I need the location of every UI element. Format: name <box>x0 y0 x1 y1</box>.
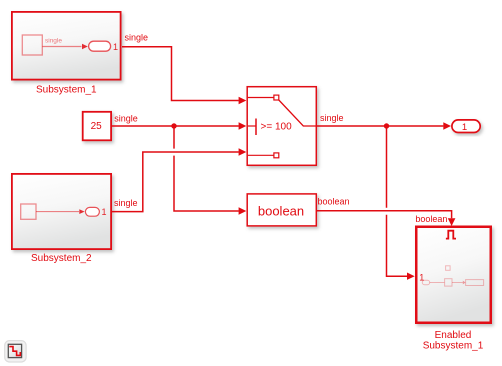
corner badge inner square <box>8 344 21 357</box>
block Constant 25 <box>83 112 111 141</box>
Switch inner bottom input line <box>248 154 274 156</box>
Subsystem_2 inner outport oval <box>85 207 99 216</box>
svg-text:boolean: boolean <box>258 203 304 218</box>
svg-text:1: 1 <box>462 122 467 133</box>
svg-text:single: single <box>320 113 344 123</box>
wire branch from Constant junction to boolean block <box>174 126 246 215</box>
block Subsystem_1 <box>12 12 121 80</box>
svg-text:boolean: boolean <box>318 196 350 206</box>
Switch inner top port square <box>274 95 279 100</box>
wire boolean block to Enabled Subsystem enable port <box>317 211 456 226</box>
Subsystem_2 inner wire with arrowhead <box>36 209 85 214</box>
svg-text:Enabled: Enabled <box>435 330 472 341</box>
Switch inner middle input stub <box>248 125 256 127</box>
Enabled Subsystem inner preview small rounded rect <box>422 280 429 284</box>
block Data Type Conversion boolean <box>247 194 316 226</box>
outport Out1 oval <box>452 120 480 133</box>
wire Switch output to outport 1 <box>317 122 451 129</box>
junction dot on Switch output wire <box>384 123 389 128</box>
Enabled Subsystem inner preview wire left <box>430 282 445 284</box>
svg-text:>= 100: >= 100 <box>261 121 293 132</box>
Subsystem_1 inner inport square <box>22 35 42 55</box>
corner badge button background <box>5 341 26 362</box>
Switch selector diagonal and output line <box>279 100 317 126</box>
block Switch <box>247 87 316 166</box>
svg-text:Subsystem_1: Subsystem_1 <box>423 341 484 352</box>
wire Subsystem_1 to Switch input 1 <box>122 47 246 104</box>
svg-text:boolean: boolean <box>415 214 447 224</box>
Subsystem_2 inner inport square <box>21 204 36 219</box>
svg-text:Subsystem_2: Subsystem_2 <box>31 253 92 264</box>
wire branch from output junction to Enabled Subsystem input 1 <box>387 126 415 280</box>
Enabled Subsystem inner preview output rect <box>466 280 484 286</box>
Subsystem_1 inner outport oval <box>89 41 111 51</box>
Enabled Subsystem inner preview small square <box>445 279 452 286</box>
svg-text:single: single <box>45 38 62 45</box>
wire Constant 25 to Switch input 2 <box>112 122 247 129</box>
svg-text:1: 1 <box>102 207 107 217</box>
Enabled Subsystem inner preview tiny enable square <box>446 266 451 271</box>
svg-text:single: single <box>125 33 149 43</box>
junction dot on Constant wire <box>171 123 176 128</box>
Enabled Subsystem inner preview wire right with arrowhead <box>452 281 466 285</box>
svg-text:single: single <box>114 113 138 123</box>
block Subsystem_2 <box>12 174 111 249</box>
Subsystem_1 inner wire with arrowhead <box>42 44 88 49</box>
Switch inner bottom port square <box>274 153 279 158</box>
Switch inner top input line <box>248 97 274 99</box>
Switch threshold tick bar <box>255 119 257 136</box>
Enabled Subsystem enable pulse symbol <box>446 231 456 239</box>
svg-text:Subsystem_1: Subsystem_1 <box>36 84 97 95</box>
svg-text:1: 1 <box>113 42 118 52</box>
svg-text:25: 25 <box>91 121 103 132</box>
block Enabled Subsystem_1 <box>416 227 491 323</box>
wire Subsystem_2 to Switch input 3 <box>112 148 247 211</box>
corner badge red staircase glyph <box>9 347 20 356</box>
svg-text:single: single <box>114 198 138 208</box>
